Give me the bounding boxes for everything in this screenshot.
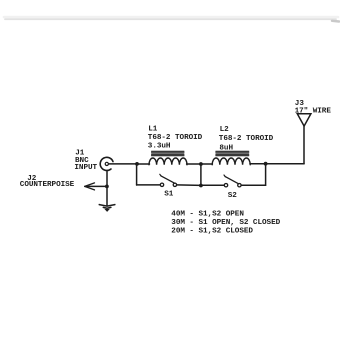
- antenna J3: [297, 114, 311, 126]
- switch S1 blade: [160, 174, 175, 183]
- ground: [99, 205, 115, 212]
- label J2 COUNTERPOISE: [20, 175, 75, 189]
- label S1: [164, 190, 174, 198]
- svg-text:L1: L1: [148, 125, 158, 133]
- wire J2 counterpoise tap (vertical below BNC): [106, 170, 108, 205]
- svg-text:3.3uH: 3.3uH: [148, 143, 171, 151]
- wire antenna feed (vertical): [303, 126, 305, 164]
- wire counterpoise arrow J2: [85, 183, 107, 190]
- node C (top of S2 branch right): [264, 162, 268, 166]
- wire L2 to antenna corner: [250, 163, 304, 165]
- svg-text:30M - S1 OPEN, S2 CLOSED: 30M - S1 OPEN, S2 CLOSED: [171, 219, 280, 227]
- label switch table: [171, 210, 280, 235]
- connector J1 center pin: [105, 162, 108, 165]
- node B (top of S1/S2 branch middle): [199, 162, 203, 166]
- label L2 T68-2 TOROID 8uH: [219, 126, 274, 152]
- svg-text:INPUT: INPUT: [74, 164, 97, 172]
- wire BNC pin to node A: [109, 163, 137, 165]
- wire S1 to node D: [177, 184, 201, 187]
- wire branch vertical middle (node B down): [200, 164, 202, 186]
- wire L1 to L2: [187, 163, 213, 165]
- switch S1 right contact: [173, 183, 176, 186]
- label J3 17" WIRE: [295, 100, 332, 116]
- wire node D to S2: [201, 184, 224, 186]
- inductor L2 winding: [212, 158, 250, 165]
- inductor L1 toroid core bars: [152, 151, 185, 155]
- svg-text:17" WIRE: 17" WIRE: [295, 107, 332, 115]
- connector J1 (BNC) outer shell: [100, 157, 113, 170]
- faint scan line top: [4, 17, 339, 22]
- svg-text:20M - S1,S2 CLOSED: 20M - S1,S2 CLOSED: [171, 228, 253, 236]
- svg-text:T68-2 TOROID: T68-2 TOROID: [148, 134, 203, 142]
- svg-text:S2: S2: [228, 192, 238, 200]
- svg-text:S1: S1: [164, 190, 174, 198]
- label J1 BNC INPUT: [74, 150, 97, 172]
- switch S2 blade: [224, 175, 239, 184]
- wire S1 branch left segment: [137, 184, 161, 186]
- label L1 T68-2 TOROID 3.3uH: [148, 125, 203, 150]
- svg-text:T68-2 TOROID: T68-2 TOROID: [219, 135, 274, 143]
- wire branch vertical left (node A down): [136, 164, 138, 185]
- svg-text:L2: L2: [220, 126, 230, 134]
- inductor L1 winding: [149, 158, 187, 165]
- node A (top of S1 branch): [135, 162, 139, 166]
- node D (bottom of middle branch): [199, 184, 203, 188]
- svg-text:COUNTERPOISE: COUNTERPOISE: [20, 181, 75, 189]
- svg-text:8uH: 8uH: [219, 144, 233, 152]
- wire node A to L1: [137, 163, 150, 165]
- wire branch vertical right (node C down): [265, 164, 267, 186]
- switch S2 left contact: [224, 184, 227, 187]
- svg-text:40M - S1,S2 OPEN: 40M - S1,S2 OPEN: [171, 210, 244, 218]
- switch S2 right contact: [238, 184, 241, 187]
- node E (counterpoise junction): [105, 185, 109, 189]
- wire S2 to right branch corner: [241, 184, 265, 186]
- switch S1 left contact: [160, 183, 163, 186]
- label S2: [228, 192, 238, 200]
- inductor L2 toroid core bars: [216, 151, 249, 155]
